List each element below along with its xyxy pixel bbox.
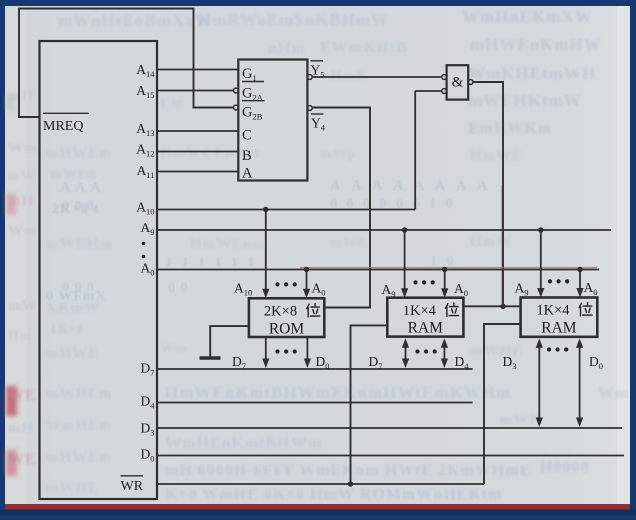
svg-text:A: A — [242, 166, 253, 182]
svg-text:ROM: ROM — [269, 321, 305, 338]
svg-text:HmRWaEmSnKBHmW: HmRWaEmSnKBHmW — [198, 10, 389, 29]
svg-text:K×8 WmHE 8K×8 HmW ROMmWnHEKtm: K×8 WmHE 8K×8 HmW ROMmWnHEKtm — [165, 486, 502, 503]
svg-text:mH: mH — [8, 88, 34, 104]
svg-text:RAM: RAM — [408, 320, 444, 337]
svg-text:Wm: Wm — [8, 140, 38, 156]
svg-text:Hm: Hm — [8, 329, 33, 344]
svg-text:WE: WE — [8, 451, 37, 468]
svg-text:EmHWKm: EmHWKm — [468, 120, 552, 137]
svg-text:WmKHEtmWH: WmKHEtmWH — [468, 64, 596, 83]
svg-text:Wm: Wm — [8, 223, 38, 239]
svg-text:1 1 1 1 1 1: 1 1 1 1 1 1 — [165, 255, 258, 270]
svg-text:WE: WE — [8, 387, 37, 404]
svg-text:nHm: nHm — [268, 40, 306, 57]
svg-text:0 0: 0 0 — [168, 281, 189, 296]
svg-text:mWp: mWp — [320, 147, 356, 162]
svg-text:A A A A A A A A: A A A A A A A A — [330, 178, 491, 194]
svg-text:mH: mH — [8, 193, 34, 209]
svg-text:1K×4: 1K×4 — [536, 303, 570, 319]
svg-text:1K×4: 1K×4 — [403, 303, 437, 319]
svg-text:Wm: Wm — [160, 341, 188, 356]
svg-text:mWEn: mWEn — [50, 167, 97, 182]
svg-text:mWHE: mWHE — [470, 343, 523, 359]
svg-text:WmHEnKmtBHWm: WmHEnKmtBHWm — [165, 435, 322, 452]
svg-text:H0008: H0008 — [540, 459, 589, 476]
svg-text:mHWEm: mHWEm — [46, 450, 113, 466]
svg-text:MREQ: MREQ — [43, 119, 83, 134]
svg-text:B: B — [242, 148, 252, 164]
svg-text:Em: Em — [160, 95, 185, 111]
svg-text:WmHEm: WmHEm — [46, 418, 113, 434]
svg-text:WmHnEKmXW: WmHnEKmXW — [462, 7, 593, 26]
svg-text:HmWEnKmtBHWmEKnmHWtEmKWHm: HmWEnKmtBHWmEKnmHWtEmKWHm — [165, 383, 511, 402]
svg-text:XKmW: XKmW — [46, 300, 100, 316]
svg-text:mHWEnKmHW: mHWEnKmHW — [470, 35, 602, 54]
svg-text:mW: mW — [8, 298, 38, 314]
svg-text:RAM: RAM — [541, 320, 577, 337]
svg-text:A A A: A A A — [60, 180, 102, 196]
svg-text:mWnHtEoBmXaW: mWnHtEoBmXaW — [58, 11, 213, 30]
svg-text:HmWEnm: HmWEnm — [190, 236, 266, 252]
svg-text:Wm: Wm — [598, 385, 629, 402]
svg-text:mHWEm: mHWEm — [46, 146, 113, 162]
svg-text:mWE: mWE — [330, 236, 368, 251]
svg-text:1 0: 1 0 — [430, 254, 457, 269]
svg-text:EWmKHtB: EWmKHtB — [320, 39, 408, 56]
svg-text:1K×8: 1K×8 — [50, 321, 85, 336]
svg-text:HmE: HmE — [330, 68, 367, 84]
svg-text:mWH: mWH — [500, 412, 542, 428]
svg-text:mW: mW — [8, 169, 36, 184]
svg-text:HmW: HmW — [470, 234, 512, 250]
svg-text:mWEHKtmW: mWEHKtmW — [468, 91, 582, 110]
svg-text:mWHEm: mWHEm — [46, 386, 113, 402]
svg-text:mHWE: mHWE — [46, 346, 99, 362]
svg-text:&: & — [452, 75, 464, 91]
svg-text:C: C — [242, 128, 252, 144]
svg-text:0 0 0: 0 0 0 — [62, 280, 95, 295]
svg-text:HmWE: HmWE — [470, 148, 523, 164]
svg-text:mH: mH — [8, 420, 34, 436]
svg-text:2K×8: 2K×8 — [264, 304, 297, 320]
svg-text:mH 6000H-6FFF WmEKnm HWtE 2KmW: mH 6000H-6FFF WmEKnm HWtE 2KmWHmE — [165, 462, 531, 479]
svg-text:mWEHm: mWEHm — [46, 236, 113, 252]
svg-text:2K×8 t: 2K×8 t — [52, 202, 99, 217]
svg-text:WR: WR — [121, 479, 144, 494]
svg-text:mWHE: mWHE — [46, 480, 99, 496]
